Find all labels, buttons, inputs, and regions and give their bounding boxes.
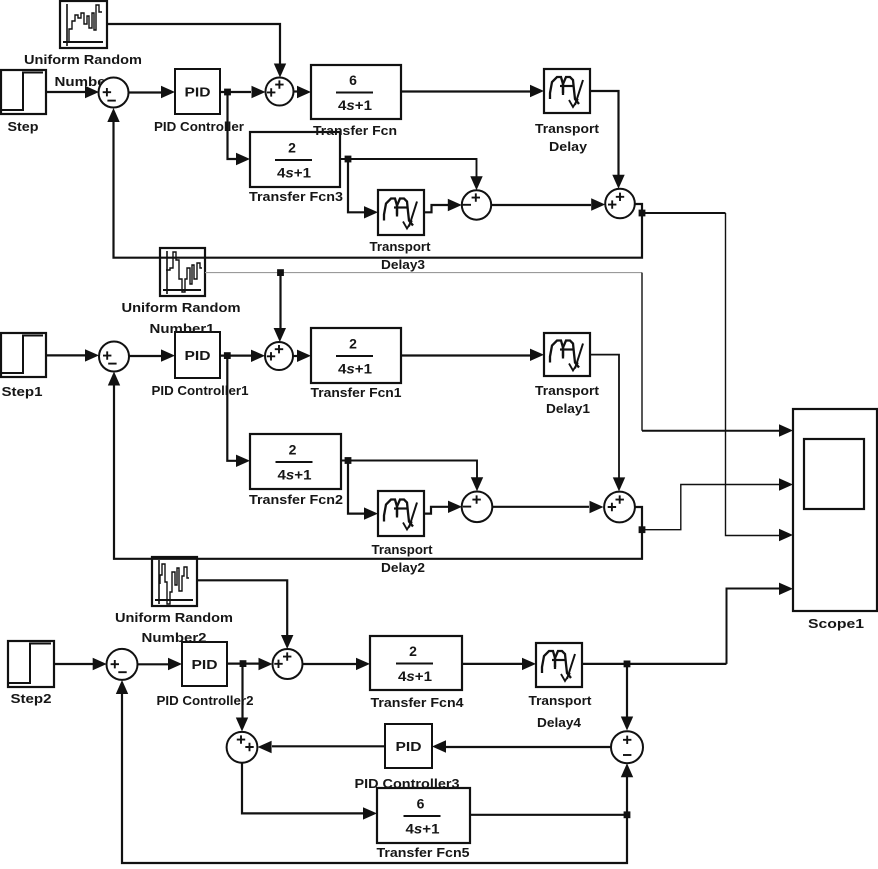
wire Sum3p to Sum4p (493, 506, 590, 508)
wire PID1 junction down to Transfer Fcn2 (227, 356, 236, 461)
block Uniform Random Number2 (152, 557, 197, 606)
wire Transfer Fcn5 output to feedback column (470, 814, 627, 816)
svg-text:Step2: Step2 (11, 691, 52, 706)
svg-text:Transfer Fcn1: Transfer Fcn1 (311, 385, 402, 400)
junction after PID Controller (224, 89, 231, 96)
wire Sum3 to Sum4 (491, 204, 591, 206)
svg-text:Uniform Random: Uniform Random (24, 52, 142, 67)
sum Sum3p (+,-) (462, 492, 493, 523)
svg-text:Transport: Transport (529, 693, 593, 708)
wire Transfer Fcn to Transport Delay (401, 90, 530, 92)
wire junction down to Sum4pp top (626, 664, 628, 717)
wire Sum4 junction right to scope column (642, 212, 726, 214)
sum Sum2p (+,+) (265, 342, 293, 370)
svg-text:Uniform Random: Uniform Random (115, 610, 233, 625)
wire Transfer Fcn4 to Transport Delay4 (462, 663, 522, 665)
svg-text:4s+1: 4s+1 (278, 467, 312, 483)
svg-text:2: 2 (289, 442, 297, 458)
wire junction up to Sum4pp bottom (626, 777, 628, 815)
svg-text:PID: PID (185, 85, 211, 100)
svg-text:Delay2: Delay2 (381, 560, 425, 575)
svg-text:Transport: Transport (370, 239, 432, 254)
junction after PID Controller2 (240, 660, 247, 667)
svg-text:Transfer Fcn: Transfer Fcn (313, 123, 397, 138)
wire loop1 feedback to Sum1 bottom (114, 122, 643, 258)
wire loop3 feedback to Sum1pp bottom (122, 694, 627, 863)
sum Sum4p (+,+) (604, 492, 635, 523)
sum Sum3 (+,-) (462, 190, 491, 219)
block Transport Delay4 (536, 643, 582, 687)
sum Sum1p (+,-) (99, 342, 129, 372)
wire Sum4p output (635, 507, 642, 530)
wire PID Controller3 to Sum3pp (272, 745, 385, 747)
svg-text:4s+1: 4s+1 (277, 165, 311, 181)
wire Transfer Fcn3 output to Sum3 top (340, 159, 477, 177)
junction Sum4p output (639, 526, 646, 533)
svg-text:PID Controller: PID Controller (154, 119, 244, 134)
block PID Controller3 (385, 724, 432, 768)
wire PID Controller to Sum2 (220, 91, 251, 93)
svg-text:PID: PID (192, 657, 218, 672)
wire Sum4pp output to PID Controller3 (446, 746, 611, 748)
block PID Controller1 (175, 332, 220, 378)
wire loop2 feedback to Sum1p bottom (114, 385, 642, 559)
sum Sum1pp (+,-) (107, 649, 138, 680)
wire PID Controller2 to Sum2pp (227, 662, 259, 664)
svg-text:6: 6 (349, 72, 357, 88)
wire Sum2p to Transfer Fcn1 (293, 355, 297, 357)
block Transfer Fcn2 2/(4s+1) (250, 434, 341, 489)
wire to Scope input 4 (727, 589, 781, 664)
junction after Transfer Fcn2 (345, 457, 352, 464)
svg-text:Transfer Fcn3: Transfer Fcn3 (249, 189, 343, 204)
block Transport Delay3 (378, 190, 424, 235)
junction Transport Delay4 output (624, 661, 631, 668)
wire Transport Delay to Sum4 top (590, 91, 619, 175)
svg-text:PID Controller1: PID Controller1 (152, 383, 249, 398)
svg-text:Transport: Transport (372, 542, 434, 557)
wire Sum4 output (635, 204, 642, 213)
wire Transport Delay4 output across (582, 663, 727, 665)
sum Sum4 (+,+) (605, 189, 635, 219)
wire Transport Delay3 to Sum3 (424, 205, 448, 212)
svg-text:PID: PID (185, 348, 211, 363)
sum Sum3pp (+,+) (227, 732, 258, 763)
wire URN1 junction down to Sum2p top (279, 273, 281, 329)
junction Sum4 output (639, 210, 646, 217)
block Transfer Fcn4 2/(4s+1) (370, 636, 462, 690)
wire Sum1pp to PID Controller2 (138, 663, 169, 665)
wire Sum1p to PID Controller1 (129, 355, 161, 357)
block Step2 (8, 641, 54, 687)
wire PID junction down to Transfer Fcn3 (228, 92, 237, 159)
svg-text:4s+1: 4s+1 (338, 97, 372, 113)
wire Transfer Fcn3 junction to Transport Delay3 (348, 159, 364, 212)
svg-text:6: 6 (417, 796, 425, 812)
svg-text:Delay1: Delay1 (546, 401, 590, 416)
svg-text:4s+1: 4s+1 (338, 361, 372, 377)
block Transfer Fcn1 2/(4s+1) (311, 328, 401, 383)
svg-text:PID: PID (396, 739, 422, 754)
wire PID Controller1 to Sum2p (220, 355, 251, 357)
block Uniform Random Number1 (160, 248, 205, 296)
sum Sum1 (+,-) (99, 78, 129, 108)
wire Sum2pp to Transfer Fcn4 (303, 663, 357, 665)
wire Sum3pp output to Transfer Fcn5 (242, 763, 363, 814)
svg-text:Transfer Fcn5: Transfer Fcn5 (377, 845, 470, 860)
svg-text:Transfer Fcn4: Transfer Fcn4 (371, 695, 465, 710)
wire Sum4p junction to Scope input 2 (642, 485, 780, 530)
block Transfer Fcn 6/(4s+1) (311, 65, 401, 119)
wire scope column down to Scope input 3 (726, 213, 781, 536)
wire PID2 junction down to Sum3pp top (241, 664, 243, 718)
wire Step1 output to Sum1p (46, 354, 85, 356)
svg-text:Transfer Fcn2: Transfer Fcn2 (249, 492, 343, 507)
junction after PID Controller1 (224, 352, 231, 359)
block Step (1, 70, 46, 114)
wire Transfer Fcn1 to Transport Delay1 (401, 354, 530, 356)
block Transfer Fcn5 6/(4s+1) (377, 788, 470, 843)
wire URN1 line down to Scope input 1 (641, 273, 643, 431)
svg-text:2: 2 (409, 643, 417, 659)
svg-text:Number2: Number2 (142, 630, 207, 645)
wire Sum1 to PID Controller (129, 91, 162, 93)
block Transfer Fcn3 2/(4s+1) (250, 132, 340, 187)
svg-text:Step1: Step1 (2, 384, 43, 399)
svg-text:Step: Step (8, 119, 39, 134)
sum Sum2pp (+,+) (273, 649, 303, 679)
svg-text:Delay: Delay (549, 139, 588, 154)
block Transport Delay (544, 69, 590, 113)
svg-text:2: 2 (288, 140, 296, 156)
svg-text:Delay3: Delay3 (381, 257, 425, 272)
svg-text:Transport: Transport (535, 121, 600, 136)
block PID Controller (175, 69, 220, 114)
junction URN1 line (277, 269, 284, 276)
wire URN1 output (gray) across to scope column (205, 272, 642, 274)
block Transport Delay1 (544, 333, 590, 376)
svg-text:PID Controller3: PID Controller3 (355, 776, 460, 791)
wire Transfer Fcn2 junction to Transport Delay2 (348, 461, 364, 514)
svg-text:PID Controller2: PID Controller2 (157, 693, 254, 708)
wire Step output to Sum1 (46, 91, 85, 93)
block Transport Delay2 (378, 491, 424, 536)
wire Transport Delay1 to Sum4p top (590, 355, 619, 478)
sum Sum2 (+,+) (266, 78, 294, 106)
wire URN2 output to Sum2pp top (197, 580, 287, 635)
wire Step2 output to Sum1pp (54, 663, 93, 665)
wire Sum2 to Transfer Fcn (294, 90, 298, 92)
svg-text:2: 2 (349, 336, 357, 352)
block PID Controller2 (182, 642, 227, 686)
junction after Transfer Fcn3 (345, 156, 352, 163)
junction Transfer Fcn5 output (624, 811, 631, 818)
wire Transport Delay2 to Sum3p (424, 507, 448, 514)
block Scope1 (793, 409, 877, 611)
svg-text:Uniform Random: Uniform Random (122, 300, 241, 315)
svg-text:Delay4: Delay4 (537, 715, 582, 730)
block Uniform Random Number (60, 1, 107, 48)
svg-text:Transport: Transport (535, 383, 600, 398)
svg-text:4s+1: 4s+1 (406, 821, 440, 837)
sum Sum4pp (+,-) (611, 731, 643, 763)
svg-text:Scope1: Scope1 (808, 616, 864, 631)
wire Transfer Fcn2 output to Sum3p top (341, 461, 477, 478)
wire URN output to Sum2 top (107, 24, 280, 64)
block Step1 (1, 333, 46, 377)
svg-text:Number1: Number1 (150, 321, 215, 336)
svg-text:4s+1: 4s+1 (398, 668, 432, 684)
